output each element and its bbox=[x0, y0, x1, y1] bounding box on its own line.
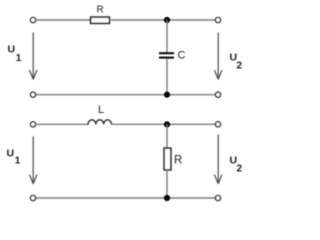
circuit 1: RC low-pass filter bbox=[8, 5, 243, 98]
node: terminal bottom-right bbox=[215, 92, 220, 97]
voltage arrow U1 (input, circuit 2) bbox=[30, 137, 37, 184]
junction top node bbox=[164, 121, 170, 127]
svg-text:L: L bbox=[98, 104, 104, 116]
voltage arrow U2 (output, circuit 1) bbox=[215, 33, 222, 79]
wire bottom rail of circuit 2 bbox=[36, 197, 215, 199]
label R (top resistor value) bbox=[97, 5, 104, 16]
wire resistor to output terminal bbox=[110, 19, 215, 21]
label U2 (circuit 2 output voltage) bbox=[230, 155, 243, 175]
svg-text:2: 2 bbox=[237, 61, 243, 72]
wire capacitor to bottom rail bbox=[166, 59, 168, 95]
resistor R (shunt) bbox=[164, 148, 171, 170]
wire input to resistor R bbox=[36, 19, 90, 21]
resistor R bbox=[91, 17, 110, 24]
capacitor C bbox=[159, 53, 174, 57]
inductor L bbox=[88, 120, 112, 125]
junction top node bbox=[164, 17, 170, 23]
label U2 (circuit 1 output voltage) bbox=[230, 52, 243, 72]
voltage arrow U1 (input, circuit 1) bbox=[30, 33, 37, 79]
svg-text:1: 1 bbox=[16, 53, 22, 64]
junction bottom node bbox=[164, 195, 170, 201]
junction bottom node bbox=[164, 92, 170, 98]
svg-text:R: R bbox=[174, 155, 182, 167]
node: output terminal top-right bbox=[215, 122, 220, 127]
svg-text:C: C bbox=[178, 50, 186, 62]
svg-text:U: U bbox=[8, 44, 16, 56]
node: input terminal top-left bbox=[30, 122, 35, 127]
label C (capacitor value) bbox=[178, 50, 186, 62]
svg-text:1: 1 bbox=[15, 156, 21, 167]
node: terminal bottom-left bbox=[30, 195, 35, 200]
node: terminal bottom-right bbox=[215, 195, 220, 200]
label U1 (circuit 1 input voltage) bbox=[8, 44, 22, 65]
wire junction to resistor R bbox=[166, 124, 168, 148]
node: output terminal top-right bbox=[215, 17, 220, 22]
svg-text:U: U bbox=[7, 148, 15, 160]
svg-text:2: 2 bbox=[237, 164, 243, 175]
label R (shunt resistor value) bbox=[174, 155, 182, 167]
node: terminal bottom-left bbox=[30, 92, 35, 97]
wire bottom rail of circuit 1 bbox=[36, 94, 215, 96]
svg-text:R: R bbox=[97, 5, 104, 16]
circuit 2: LR low-pass filter bbox=[7, 104, 243, 201]
node: input terminal top-left bbox=[30, 17, 35, 22]
wire resistor to bottom rail bbox=[166, 170, 168, 198]
label U1 (circuit 2 input voltage) bbox=[7, 148, 21, 167]
wire input to inductor L bbox=[36, 123, 88, 125]
label L (inductor value) bbox=[98, 104, 104, 116]
wire inductor to output terminal bbox=[112, 123, 216, 125]
wire junction to capacitor bbox=[166, 20, 168, 52]
voltage arrow U2 (output, circuit 2) bbox=[215, 135, 222, 184]
